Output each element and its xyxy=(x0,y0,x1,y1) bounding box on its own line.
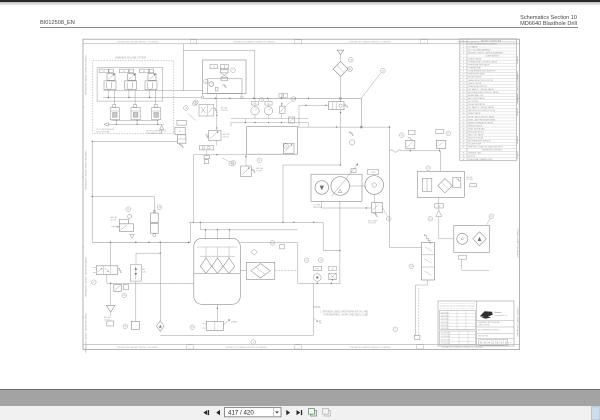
port node on bus xyxy=(339,97,342,100)
item callout bubble 9 xyxy=(251,340,256,345)
item callout bubble 16 xyxy=(231,161,236,166)
wire: hose link xyxy=(350,185,365,187)
wire: link to vertical riser x=183.3 xyxy=(182,44,184,91)
svg-text:CHECK VALVE: CHECK VALVE xyxy=(468,82,482,85)
solenoid pilot valve group 1: label box xyxy=(99,69,108,73)
wire: gauge risers to bus xyxy=(254,98,256,101)
wire: y=196.6 branch xyxy=(92,196,154,198)
air end motor M1 xyxy=(365,176,384,195)
spring of valve V4 xyxy=(223,84,227,87)
border tick xyxy=(82,176,84,178)
wire: valve V13 to tank left port xyxy=(106,274,108,283)
pilot label box xyxy=(210,65,218,69)
item callout bubble 15 xyxy=(194,100,199,105)
svg-text:35: 35 xyxy=(462,153,464,155)
svg-text:FLT / OIL TANK ASSMBLY: FLT / OIL TANK ASSMBLY xyxy=(468,48,491,51)
gauge label box 1 xyxy=(251,101,258,105)
svg-text:XX: XX xyxy=(179,131,182,133)
fill label box xyxy=(314,266,322,270)
svg-text:1/4-20 0.38 5: 1/4-20 0.38 5 xyxy=(441,315,449,317)
toolbar: first-page button xyxy=(203,410,207,415)
lubricator stack LS1 xyxy=(422,243,435,281)
svg-text:CR: CR xyxy=(212,67,215,69)
drain valve V12 xyxy=(206,321,223,330)
svg-text:VACUUM OIL FILTER (2 PLCS): VACUUM OIL FILTER (2 PLCS) xyxy=(468,109,495,112)
wire: y=242.6 scavenge line xyxy=(240,242,297,244)
wire: gauge drop to bus xyxy=(316,282,318,284)
svg-text:AUTO-DRN VALVE: AUTO-DRN VALVE xyxy=(468,97,485,100)
svg-text:LUBE SYSTEM: LUBE SYSTEM xyxy=(478,324,490,326)
port node: box B left xyxy=(201,96,204,99)
revision mark xyxy=(516,151,518,159)
pressure gauge G2 xyxy=(251,107,259,115)
lube injector reservoir 1 xyxy=(113,105,116,108)
item callout bubble 11 xyxy=(259,97,264,102)
item callout bubble 20 xyxy=(229,161,234,166)
svg-text:OPERATORS CABINET WIRING: OPERATORS CABINET WIRING xyxy=(516,228,519,258)
wire: A/C line y=222.3 xyxy=(189,221,324,223)
svg-text:AIR PRESSURE SWITCH: AIR PRESSURE SWITCH xyxy=(468,140,491,143)
svg-text:THERMOSTAT: THERMOSTAT xyxy=(468,67,482,70)
lubricator bowl xyxy=(131,321,139,329)
title block division lines xyxy=(477,320,515,322)
svg-text:14: 14 xyxy=(462,86,464,88)
actuator cup symbol group 3 xyxy=(145,81,157,90)
wire: box B port drops xyxy=(202,94,204,97)
leader to bubbles xyxy=(187,113,196,121)
wire: bus corner riser x=361.3 xyxy=(360,98,362,127)
svg-text:4: 4 xyxy=(518,75,519,77)
wire: group feed drop xyxy=(107,89,109,97)
svg-text:SUCTION PAD: SUCTION PAD xyxy=(96,130,110,133)
svg-text:5: 5 xyxy=(463,58,464,60)
svg-text:1/4-20 0.38 5: 1/4-20 0.38 5 xyxy=(441,328,449,330)
item callout bubble 25 xyxy=(381,68,386,73)
svg-text:5/16-18 0.44 9: 5/16-18 0.44 9 xyxy=(441,343,450,345)
wire: pump outlet xyxy=(320,201,322,208)
unloader valve V5 xyxy=(329,102,344,110)
wire: riser x=254.8 to bus xyxy=(254,50,256,98)
revision mark xyxy=(516,56,518,64)
wire: upper link y=50.3 xyxy=(183,49,255,51)
header rule xyxy=(40,27,578,28)
svg-text:GA: GA xyxy=(319,322,322,325)
petcock valve xyxy=(107,321,114,326)
bottom toolbar xyxy=(0,406,600,420)
svg-text:6: 6 xyxy=(497,341,499,345)
svg-text:DRAIN: DRAIN xyxy=(231,321,238,324)
gage label boxes below filter xyxy=(435,204,444,208)
parts list header row xyxy=(460,41,517,43)
hose break symbols xyxy=(390,150,402,152)
svg-text:COAL COMPRESSOR CONTROL: COAL COMPRESSOR CONTROL xyxy=(468,42,497,45)
bottom gray gap band xyxy=(0,389,600,390)
svg-text:2: 2 xyxy=(395,329,397,331)
svg-text:1800 RPM: 1800 RPM xyxy=(313,207,322,209)
leader relief valve xyxy=(285,101,292,107)
item callout bubble 13 xyxy=(319,258,324,263)
wire: riser x=160.3 xyxy=(159,242,161,253)
svg-text:THIS DRAWING AND DATA ARE PROP: THIS DRAWING AND DATA ARE PROPRIETARY AN… xyxy=(440,302,475,305)
svg-text:22: 22 xyxy=(462,110,464,112)
svg-text:OPERATORS CABINET WIRING/PLUMB: OPERATORS CABINET WIRING/PLUMBING xyxy=(85,149,88,190)
drawing sheet outer border frame xyxy=(83,39,520,349)
svg-text:1/4-20 0.38 5: 1/4-20 0.38 5 xyxy=(441,319,449,321)
svg-text:6: 6 xyxy=(463,62,464,64)
wire: compressor drop xyxy=(373,194,375,202)
svg-text:2: 2 xyxy=(463,46,464,48)
item callout bubble 21 xyxy=(257,158,262,163)
svg-text:OIL: OIL xyxy=(267,103,270,105)
svg-text:417 / 420: 417 / 420 xyxy=(228,409,254,416)
svg-text:VENT FILTER PAD: VENT FILTER PAD xyxy=(468,127,485,130)
svg-text:5/16-18 0.44 9: 5/16-18 0.44 9 xyxy=(441,339,450,341)
gauge G1 in box B xyxy=(209,82,214,87)
zone divider bottom xyxy=(295,345,301,349)
leader line to callout xyxy=(361,73,381,99)
svg-text:4: 4 xyxy=(518,98,519,100)
wire: y=141.3 to spool valve xyxy=(92,140,177,142)
scrollbar stub bottom right xyxy=(592,407,600,420)
wire: drop to grease pump xyxy=(153,197,155,213)
svg-text:OPERATORS CABINET WIRING / P: OPERATORS CABINET WIRING / PLUMBING xyxy=(117,346,159,349)
relief valve V6 xyxy=(280,106,285,113)
pressure switch PS2 xyxy=(436,140,446,148)
item callout bubble 26 xyxy=(349,58,354,63)
svg-text:10: 10 xyxy=(462,74,464,76)
item callout bubble 22 xyxy=(426,166,431,171)
svg-text:OPERATORS CABINET WIRING / P: OPERATORS CABINET WIRING / PLUMBING xyxy=(233,41,275,44)
svg-text:33: 33 xyxy=(462,144,464,146)
swash plate arrow xyxy=(332,165,358,197)
wire: option box outlet upper y=90.7 xyxy=(103,90,202,92)
wire: injector bus upper xyxy=(111,119,158,121)
svg-text:175 PSI: 175 PSI xyxy=(221,110,228,112)
svg-text:4: 4 xyxy=(488,341,490,345)
toolbar: last-page button xyxy=(297,410,301,415)
separator tank box H xyxy=(247,127,298,155)
revision mark xyxy=(516,136,518,144)
svg-text:IN-LINE PUMP: IN-LINE PUMP xyxy=(468,144,481,146)
svg-text:5/16-18 0.44 9: 5/16-18 0.44 9 xyxy=(441,333,450,335)
svg-text:LEVEL INDICATOR: LEVEL INDICATOR xyxy=(468,103,485,106)
wire: injector drop xyxy=(115,120,117,125)
toolbar: previous-page button xyxy=(216,410,220,415)
lubricator feed spring xyxy=(424,234,431,244)
svg-text:SIZE DWG NO: SIZE DWG NO xyxy=(478,336,489,338)
wire: injector drop xyxy=(157,120,159,125)
arrow into reducer xyxy=(111,226,119,228)
svg-text:OPERATORS CABINET WIRING/PLUMB: OPERATORS CABINET WIRING/PLUMBING xyxy=(85,54,88,95)
leader and bubble xyxy=(486,218,490,225)
svg-text:CAL: CAL xyxy=(142,270,146,273)
item callout bubble 13 xyxy=(428,217,433,222)
svg-text:AIR: AIR xyxy=(254,102,258,105)
item callout bubble 33 xyxy=(157,205,162,210)
main air compressor C1 xyxy=(331,177,350,196)
item callout bubble 28 xyxy=(122,293,127,298)
svg-text:9: 9 xyxy=(253,342,255,344)
svg-text:1/4-20 0.38 5: 1/4-20 0.38 5 xyxy=(441,325,449,327)
wire: riser x=190.3 xyxy=(189,222,191,242)
actuator cup symbol group 1 xyxy=(104,81,116,90)
actuator cup symbol group 2 xyxy=(125,81,137,90)
toolbar: page number input box xyxy=(225,408,282,417)
svg-text:25 PSID: 25 PSID xyxy=(466,179,473,181)
svg-text:9: 9 xyxy=(463,71,464,73)
wire: stub into valve V5 xyxy=(299,104,329,106)
svg-text:12: 12 xyxy=(462,80,464,82)
svg-text:0: 0 xyxy=(484,341,486,345)
wire: bottom distribution bus y=242.3 xyxy=(92,241,190,243)
dryer motor circle xyxy=(457,233,468,244)
svg-text:1: 1 xyxy=(463,43,464,45)
control manifold box B xyxy=(203,60,247,94)
svg-text:23: 23 xyxy=(462,113,464,115)
svg-text:27: 27 xyxy=(462,125,464,127)
lube injector reservoir 3 xyxy=(154,105,157,108)
title block vertical divider xyxy=(476,301,478,346)
svg-text:OPERATORS CABINET WIRING / P: OPERATORS CABINET WIRING / PLUMBING xyxy=(441,346,483,349)
pressure switch PS1 xyxy=(406,140,415,149)
wire: injector drop xyxy=(136,120,138,125)
label box compressor xyxy=(367,170,379,174)
svg-text:1 1: 1 1 xyxy=(508,343,511,345)
svg-text:PRESSURE SWITCH: PRESSURE SWITCH xyxy=(468,86,487,88)
funnel vent symbol xyxy=(110,283,112,305)
toolbar: next-page button xyxy=(286,410,290,415)
border tick xyxy=(82,316,84,318)
item callout bubble 27 xyxy=(92,280,97,285)
svg-text:ENGINE CONTROL SERVICE ASSMBLY: ENGINE CONTROL SERVICE ASSMBLY xyxy=(468,51,504,54)
svg-text:CONDENSATE UNLOADER KIT: CONDENSATE UNLOADER KIT xyxy=(468,70,496,73)
svg-text:DRAIN VALVE: DRAIN VALVE xyxy=(468,112,481,115)
wire: corner x=323.2 xyxy=(322,222,324,250)
air end oil filter assembly box xyxy=(417,171,464,197)
solenoid valve V11 (left) xyxy=(199,105,214,117)
pressure gauge G3 xyxy=(264,107,272,115)
svg-text:FOR BEARING, GEAR, AND SEAL LU: FOR BEARING, GEAR, AND SEAL LUBE. xyxy=(324,314,369,317)
wire: fill line down and across xyxy=(313,283,315,335)
svg-text:25: 25 xyxy=(462,119,464,121)
control box B inner chamber xyxy=(208,79,243,94)
item callout bubble 7 xyxy=(231,68,236,73)
4/3 directional valve V13 xyxy=(109,242,111,265)
svg-text:OPERATORS CABINET WIRING / P: OPERATORS CABINET WIRING / PLUMBING xyxy=(225,346,267,349)
svg-text:NEEDLE VALVE: NEEDLE VALVE xyxy=(468,124,483,127)
pressure reducing valve V16 xyxy=(241,166,252,177)
lubricator terminal box xyxy=(414,335,420,339)
svg-text:PRESSURE REG VALVE: PRESSURE REG VALVE xyxy=(468,64,490,67)
svg-text:COMPONENTS: COMPONENTS xyxy=(485,55,499,57)
air line regulator S xyxy=(135,253,137,265)
drain triangle under reducer xyxy=(130,234,135,238)
wire: drop to oil filter box xyxy=(439,151,441,172)
svg-text:AIR PRESSURE CONTROL VALVE: AIR PRESSURE CONTROL VALVE xyxy=(468,91,499,94)
svg-text:30 PSI: 30 PSI xyxy=(256,171,262,173)
pressure reducing valve V7 on manifold xyxy=(289,117,295,123)
svg-text:32: 32 xyxy=(462,141,464,143)
border tick xyxy=(82,106,84,108)
check valve CV1 (diamond) xyxy=(157,321,165,332)
svg-text:RELIEF VALVE: RELIEF VALVE xyxy=(468,76,482,79)
svg-text:THERMOSTAT CONTROL VALVE: THERMOSTAT CONTROL VALVE xyxy=(468,61,497,64)
svg-text:GA: GA xyxy=(438,205,441,208)
dryer assembly box xyxy=(454,225,490,252)
svg-text:MOTOR: MOTOR xyxy=(468,156,476,158)
svg-text:GAGE SELECTOR (2 PLCS): GAGE SELECTOR (2 PLCS) xyxy=(468,79,493,82)
svg-text:WATER SEPARATOR VALVE: WATER SEPARATOR VALVE xyxy=(468,121,494,124)
svg-text:Bucyrus: Bucyrus xyxy=(495,311,502,314)
thermal valve V8 inside box H xyxy=(283,143,294,153)
svg-text:SHUTTLE VALVE: SHUTTLE VALVE xyxy=(468,137,484,140)
svg-text:24: 24 xyxy=(462,116,464,118)
svg-text:OPERATORS CABINET WIRING: OPERATORS CABINET WIRING xyxy=(516,307,519,337)
item callout bubble 29 xyxy=(126,207,131,212)
solenoid valve V3 body xyxy=(148,74,156,81)
svg-text:4: 4 xyxy=(518,112,519,114)
wire: filter outlet (dashed lube line) xyxy=(275,269,298,271)
revision mark xyxy=(516,94,518,102)
wire: group 1 drop to injector xyxy=(113,89,115,104)
title block outer frame xyxy=(438,301,514,346)
title block torque chart upper xyxy=(440,311,476,330)
zone divider xyxy=(190,40,196,44)
receiver separator tank T1 xyxy=(194,238,241,304)
zone diamond marker xyxy=(251,249,257,255)
wire: manifold drops xyxy=(230,123,232,127)
wire: vent stem xyxy=(340,55,342,62)
svg-text:15: 15 xyxy=(462,89,464,91)
svg-text:0: 0 xyxy=(480,341,482,345)
svg-text:PRESSURE CONTROL: PRESSURE CONTROL xyxy=(482,150,502,152)
wire: filter to unloader valve xyxy=(340,77,342,102)
svg-text:28: 28 xyxy=(462,128,464,130)
coalescer top header xyxy=(200,255,234,257)
svg-text:OPERATORS CABINET WIRING / P: OPERATORS CABINET WIRING / PLUMBING xyxy=(117,41,159,44)
svg-text:1/4-20 0.38 5: 1/4-20 0.38 5 xyxy=(441,312,449,314)
item callout bubble 42 xyxy=(489,214,494,219)
wire: V5 pilot riser xyxy=(298,105,300,126)
svg-text:20: 20 xyxy=(462,104,464,106)
solenoid pilot valve group 2: label box xyxy=(119,69,128,73)
wire: riser from box H bottom to valve V16 xyxy=(245,154,247,166)
svg-text:PRESSURE TRANSDUCER: PRESSURE TRANSDUCER xyxy=(468,158,493,161)
svg-text:S1: S1 xyxy=(103,71,105,73)
toolbar: copy tool icon (disabled) xyxy=(325,411,331,417)
wire: lubricator feed y=247.3 xyxy=(390,246,422,248)
svg-text:BALL CUT VALVE: BALL CUT VALVE xyxy=(468,134,484,137)
svg-text:3: 3 xyxy=(463,49,464,51)
item callout bubble 19 xyxy=(270,241,275,246)
wire: lube manifold y=127.1 xyxy=(298,126,390,128)
solenoid valve V2 body xyxy=(128,74,136,81)
item callout bubble 18 xyxy=(184,106,189,111)
svg-text:31: 31 xyxy=(462,138,464,140)
svg-text:2: 2 xyxy=(492,341,494,345)
wire: switch line y=150.8 xyxy=(402,150,441,152)
svg-text:21: 21 xyxy=(462,107,464,109)
header text right xyxy=(378,15,577,27)
inner manifold box xyxy=(97,68,163,102)
zone divider bottom xyxy=(417,345,423,349)
wire: group feed drop xyxy=(149,89,151,97)
svg-text:OPERATORS CABINET WIRING / P: OPERATORS CABINET WIRING / PLUMBING xyxy=(349,41,391,44)
item callout bubble 12 xyxy=(304,258,309,263)
wire: riser x=297.8 xyxy=(297,243,299,284)
wire: tank feed drops xyxy=(205,230,207,239)
svg-text:0: 0 xyxy=(505,341,507,345)
wire: option box outlet lower y=97.5 xyxy=(103,97,201,99)
zone divider xyxy=(295,40,301,44)
zone divider xyxy=(421,40,427,44)
svg-text:COMP: COMP xyxy=(370,172,376,174)
svg-text:7: 7 xyxy=(463,65,464,67)
item callout bubble 41 xyxy=(446,131,451,136)
svg-text:8: 8 xyxy=(463,68,464,70)
svg-text:OPERATORS CABINET WIRING/PLUMB: OPERATORS CABINET WIRING/PLUMBING xyxy=(85,256,88,297)
air intake filter F1 (diamond) xyxy=(333,62,348,77)
dryer filter diamond xyxy=(473,232,487,246)
pump enclosure box xyxy=(311,174,362,201)
svg-text:NOTE:: NOTE: xyxy=(313,306,321,309)
browser top edge dark bar xyxy=(0,0,600,2)
title block drawing number digit boxes xyxy=(479,340,508,346)
item callout bubble 2 xyxy=(393,327,398,332)
wire: dryer connections xyxy=(439,238,454,240)
arrow: from compressor discharge pad xyxy=(160,125,164,129)
coalescer elements (diamonds) xyxy=(200,258,211,273)
oil filter F2 xyxy=(246,262,274,279)
parts list rows xyxy=(460,44,517,46)
svg-text:30 PSI: 30 PSI xyxy=(111,219,117,221)
svg-text:SCHEMATIC AIR PIPING AND: SCHEMATIC AIR PIPING AND xyxy=(478,321,501,324)
check valve CV2 xyxy=(436,210,442,216)
compressor control lever symbols xyxy=(349,131,353,135)
svg-text:REGULATOR VLV: REGULATOR VLV xyxy=(468,130,484,133)
svg-text:DISCHARGE PAD: DISCHARGE PAD xyxy=(146,132,163,135)
svg-text:34: 34 xyxy=(462,147,464,149)
frame bottom zone band xyxy=(83,343,520,345)
filter bypass diamond xyxy=(438,179,453,193)
svg-text:GREASE CAN: GREASE CAN xyxy=(468,152,481,155)
svg-text:GA: GA xyxy=(331,268,334,271)
wire: tank drain xyxy=(216,304,218,321)
svg-text:26: 26 xyxy=(462,122,464,124)
label box under dryer xyxy=(459,255,467,259)
svg-text:17: 17 xyxy=(462,95,464,97)
wire: regulator down to bowl xyxy=(135,281,137,321)
leader to bubble xyxy=(383,208,388,217)
svg-text:4: 4 xyxy=(518,140,519,142)
parts list item number column line xyxy=(466,39,468,161)
svg-text:29: 29 xyxy=(462,131,464,133)
item callout bubble 24 xyxy=(284,144,289,149)
svg-text:VARIABLE VOLUME OPTION: VARIABLE VOLUME OPTION xyxy=(115,57,146,60)
dashed enclosure: variable volume option xyxy=(93,61,174,134)
svg-text:FILL: FILL xyxy=(316,269,319,271)
svg-text:7: 7 xyxy=(232,70,234,72)
svg-text:S3: S3 xyxy=(143,71,145,73)
bleed arrow off fill line xyxy=(314,318,318,321)
svg-text:OPERATORS CABINET WIRING/PLUMB: OPERATORS CABINET WIRING/PLUMBING xyxy=(85,312,88,353)
frame top zone band xyxy=(83,43,520,45)
svg-text:5/16-18 0.44 9: 5/16-18 0.44 9 xyxy=(441,336,450,338)
wire: riser x=283 xyxy=(282,165,284,222)
wire: pump drain vertical x=339.9 xyxy=(339,201,341,283)
tank separator mid line xyxy=(194,272,241,274)
revision mark xyxy=(516,108,518,116)
